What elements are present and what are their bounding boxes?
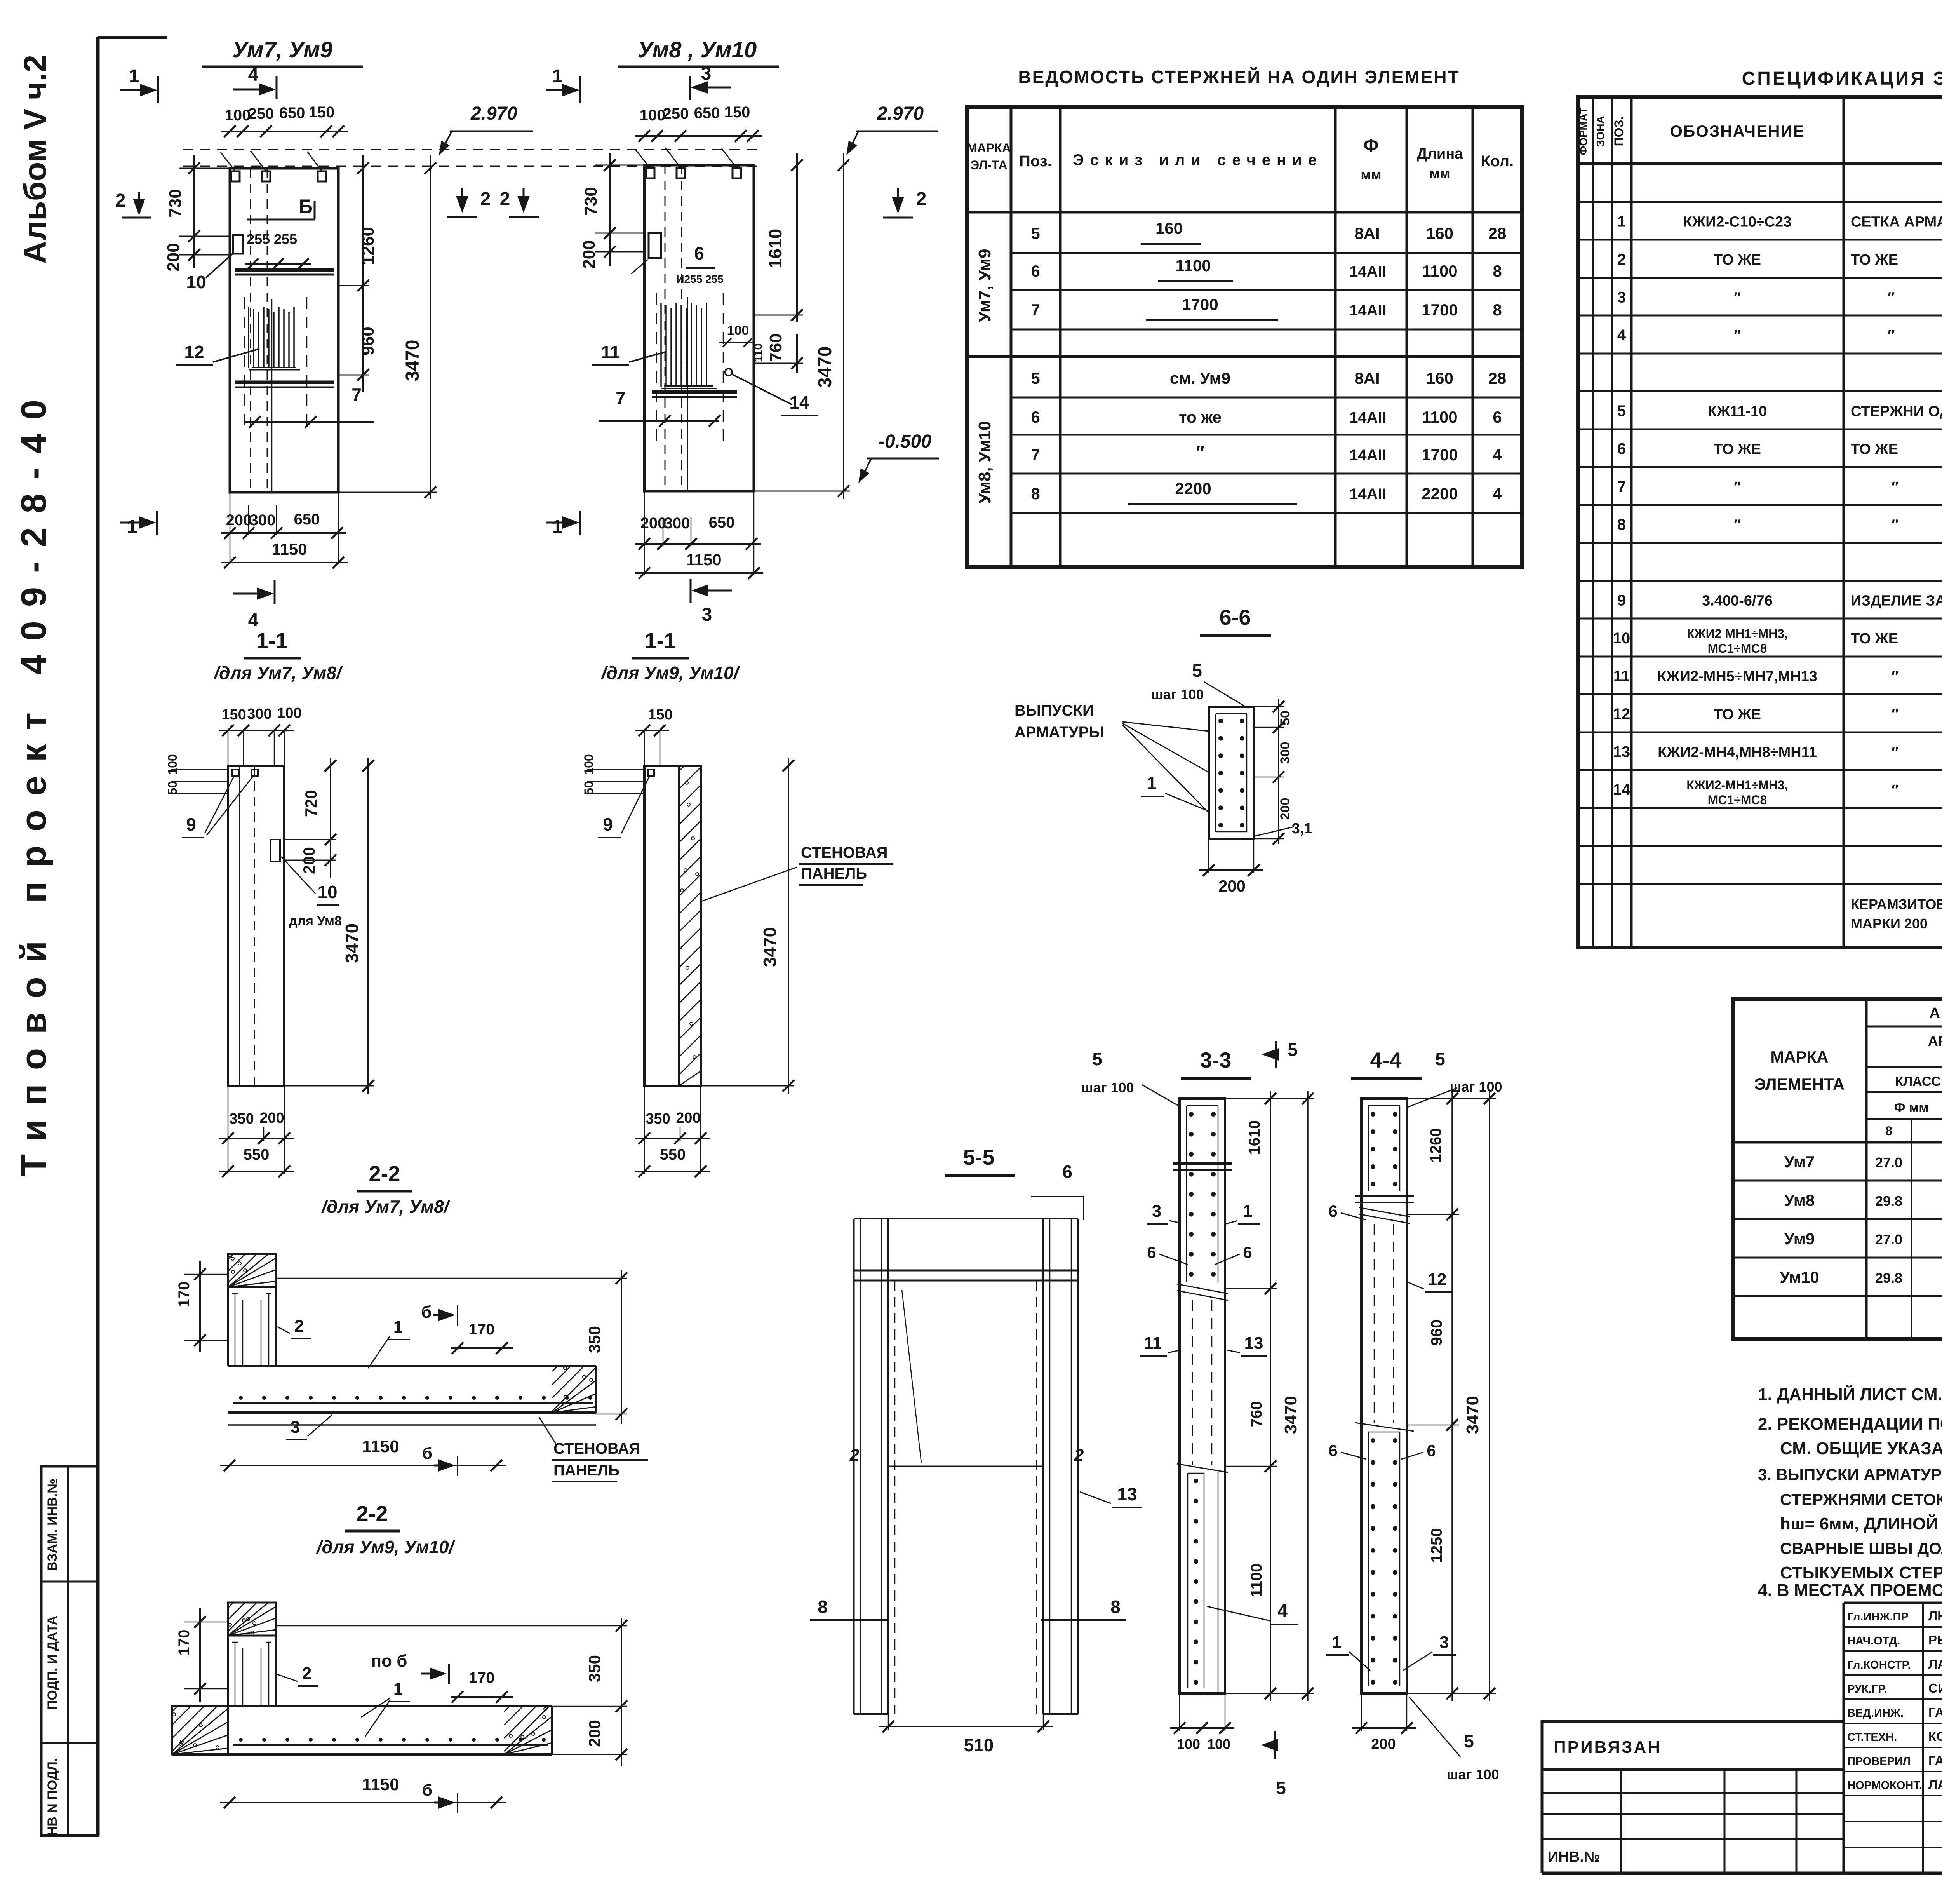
svg-text:3,1: 3,1 [1292, 820, 1312, 837]
svg-text:4: 4 [1493, 446, 1502, 464]
svg-text:550: 550 [660, 1146, 686, 1163]
svg-text:Гл.ИНЖ.ПР: Гл.ИНЖ.ПР [1847, 1611, 1909, 1623]
svg-text:ТО ЖЕ: ТО ЖЕ [1714, 252, 1761, 268]
svg-text:МС1÷МС8: МС1÷МС8 [1708, 793, 1767, 807]
svg-text:ВЕДОМОСТЬ СТЕРЖНЕЙ НА ОДИН: ВЕДОМОСТЬ СТЕРЖНЕЙ НА ОДИН ЭЛЕМЕНТ [1018, 67, 1460, 87]
top panel cap with hatch 2-2B [228, 1603, 276, 1636]
svg-text:250: 250 [248, 105, 274, 122]
svg-text:5: 5 [1288, 1040, 1298, 1060]
svg-text:/для Ум7, Ум8/: /для Ум7, Ум8/ [321, 1197, 450, 1217]
svg-text:3. ВЫПУСКИ АРМАТУРЫ ИЗ СТЕ: 3. ВЫПУСКИ АРМАТУРЫ ИЗ СТЕНОВЫХ ПАНЕЛЕЙ … [1758, 1465, 1942, 1484]
embedded part rect view B [631, 233, 661, 274]
break lines section 3-3 [1177, 1284, 1228, 1472]
position label 13 section 5-5 [1080, 1484, 1142, 1507]
svg-text:МАРКИ 200: МАРКИ 200 [1851, 916, 1928, 932]
dimension 170 section 2-2B [176, 1608, 228, 1702]
svg-text:5-5: 5-5 [963, 1145, 995, 1169]
svg-text:шаг 100: шаг 100 [1446, 1766, 1499, 1782]
table spetsifikatsiya row 6 [1617, 439, 1942, 458]
svg-text:350: 350 [229, 1111, 254, 1127]
table spetsifikatsiya row 3 [1617, 287, 1942, 307]
svg-text:110: 110 [752, 343, 765, 362]
position label 2 section 2-2A [277, 1317, 311, 1338]
svg-text:ЛАПКИН: ЛАПКИН [1928, 1777, 1942, 1792]
svg-text:14: 14 [1613, 781, 1631, 798]
svg-text:350: 350 [646, 1111, 670, 1127]
position label 1 section 6-6 [1141, 773, 1209, 811]
svg-text:160: 160 [1155, 219, 1183, 237]
position label 2 section 2-2B [277, 1664, 318, 1686]
svg-text:200: 200 [164, 243, 183, 271]
svg-text:Ум7, Ум9: Ум7, Ум9 [975, 249, 994, 322]
svg-text:ГАЛЬПЕРИНА: ГАЛЬПЕРИНА [1928, 1753, 1942, 1768]
svg-text:СТЕНОВАЯ: СТЕНОВАЯ [801, 844, 888, 861]
svg-text:255 255: 255 255 [247, 231, 297, 247]
table spetsifikatsiya row 2 [1617, 249, 1942, 268]
svg-text:4: 4 [1617, 327, 1626, 344]
svg-text:200: 200 [1278, 798, 1293, 820]
svg-text:мм: мм [1361, 167, 1381, 183]
svg-text:11: 11 [1613, 668, 1630, 685]
svg-text:КЖИ2-МН1÷МН3,: КЖИ2-МН1÷МН3, [1686, 778, 1788, 792]
bottom dimension 100 100 section 3-3 [1170, 1693, 1234, 1752]
svg-text:170: 170 [469, 1669, 495, 1686]
svg-text:СПЕЦИФИКАЦИЯ ЭЛЕМЕНТОВ МОНОЛ: СПЕЦИФИКАЦИЯ ЭЛЕМЕНТОВ МОНОЛИТНОЙ КОНСТР… [1742, 68, 1942, 89]
svg-text:6: 6 [694, 243, 704, 263]
level mark 2.970 view B [846, 103, 938, 155]
svg-text:то же: то же [1179, 408, 1222, 426]
svg-text:3470: 3470 [760, 927, 780, 967]
svg-text:28: 28 [1488, 369, 1507, 387]
mark 5 shag 100 bottom section 4-4 [1409, 1697, 1499, 1782]
svg-text:2-2: 2-2 [357, 1501, 388, 1526]
svg-text:Ум9: Ум9 [1784, 1230, 1815, 1248]
svg-text:4: 4 [248, 610, 259, 631]
svg-text:4-4: 4-4 [1370, 1048, 1402, 1072]
svg-text:1610: 1610 [765, 229, 785, 268]
mark 5 shag 100 section 6-6 [1151, 660, 1248, 708]
svg-text:2.970: 2.970 [470, 103, 517, 124]
svg-text:Ум8, Ум10: Ум8, Ум10 [975, 421, 994, 503]
sheet border left frame line [98, 37, 167, 1836]
svg-text:5: 5 [1617, 402, 1626, 420]
svg-text:550: 550 [244, 1146, 270, 1163]
section title 6-6 [1200, 605, 1271, 636]
slab right end hatch 2-2B [504, 1706, 552, 1754]
svg-text:1260: 1260 [358, 227, 378, 265]
weld splice bars section 3-3 [1173, 1164, 1232, 1170]
svg-text:300: 300 [247, 706, 271, 722]
table vyborka row Um9 [1784, 1230, 1942, 1248]
svg-text:350: 350 [585, 1326, 604, 1353]
svg-text:КЖ11-10: КЖ11-10 [1708, 403, 1767, 420]
svg-text:3470: 3470 [402, 340, 423, 381]
svg-text:8АI: 8АI [1354, 369, 1380, 387]
svg-text:-0.500: -0.500 [879, 431, 931, 452]
svg-text:7: 7 [1617, 478, 1626, 495]
table spetsifikatsiya grid [1578, 97, 1942, 948]
signature table grid [1844, 1603, 1942, 1873]
svg-text:6: 6 [1147, 1243, 1156, 1261]
signature table names [1847, 1609, 1942, 1792]
svg-text:300: 300 [250, 512, 276, 529]
svg-text:3: 3 [701, 63, 712, 84]
svg-text:200: 200 [676, 1110, 700, 1126]
svg-text:2200: 2200 [1175, 479, 1211, 498]
svg-text:ПРОВЕРИЛ: ПРОВЕРИЛ [1847, 1755, 1911, 1768]
svg-text:4: 4 [1493, 484, 1502, 503]
svg-text:ВЕД.ИНЖ.: ВЕД.ИНЖ. [1847, 1707, 1904, 1719]
slab rebar dots 2-2A [239, 1396, 592, 1400]
svg-text:КЛАСС АI: КЛАСС АI [1895, 1074, 1942, 1089]
svg-text:200: 200 [585, 1720, 604, 1747]
svg-text:50: 50 [165, 781, 179, 795]
svg-text:″: ″ [1892, 744, 1898, 761]
svg-text:МАРКА: МАРКА [967, 141, 1011, 155]
svg-text:14: 14 [789, 392, 809, 413]
table spetsifikatsiya row 9 [1617, 591, 1942, 610]
svg-text:″: ″ [1892, 517, 1898, 533]
svg-text:7: 7 [1031, 446, 1040, 464]
svg-text:2: 2 [916, 189, 927, 209]
table vedomost row 7 group2 [1031, 442, 1502, 464]
svg-text:2: 2 [849, 1446, 860, 1465]
wall verticals 2-2B [228, 1636, 276, 1706]
column top segment section 4-4 [1368, 1106, 1400, 1191]
svg-text:НОРМОКОНТ.: НОРМОКОНТ. [1847, 1779, 1922, 1792]
svg-text:ПРИВЯЗАН: ПРИВЯЗАН [1554, 1738, 1662, 1757]
svg-text:″: ″ [1734, 290, 1741, 306]
svg-text:3470: 3470 [1463, 1396, 1482, 1434]
left dimension chain 730 200 view A [164, 155, 230, 272]
svg-text:720: 720 [302, 790, 320, 817]
position label 7 view B [599, 388, 720, 427]
table spetsifikatsiya headers [1577, 107, 1942, 161]
anchor plates section 1-1A [232, 770, 258, 776]
rebar cluster view B [656, 293, 723, 491]
svg-text:СМ. ОБЩИЕ УКАЗАНИЯ п.6: СМ. ОБЩИЕ УКАЗАНИЯ п.6 НА ЛИСТЕ КЖ 11-1 [1780, 1439, 1942, 1458]
right dimension chain 1260 960 1250 section 4-4 [1407, 1091, 1459, 1701]
svg-text:650: 650 [709, 514, 735, 531]
position label 4 section 3-3 [1207, 1601, 1298, 1625]
elevation outline view B [644, 165, 754, 491]
bottom dimensions 350 200 550 section 1-1B [635, 1086, 710, 1177]
section cut mark 1 bottom-left of view B [546, 511, 580, 537]
svg-text:АРМАТУРЫ: АРМАТУРЫ [1015, 724, 1104, 741]
svg-text:ЛАПКИН: ЛАПКИН [1928, 1657, 1942, 1671]
svg-text:3: 3 [291, 1418, 300, 1437]
svg-text:Ф: Ф [1363, 135, 1378, 155]
table vyborka row Um7 [1784, 1153, 1942, 1171]
svg-text:1: 1 [393, 1679, 403, 1698]
rebar dots section 6-6 [1218, 719, 1244, 827]
welded mesh bar lower view A [235, 382, 334, 387]
table vedomost row 8 group2 [1031, 479, 1502, 504]
marks 8 section 5-5 [810, 1597, 1126, 1620]
overall dimension 3470 view B [754, 153, 850, 499]
svg-text:13: 13 [1244, 1334, 1263, 1353]
svg-text:Альбом V ч.2: Альбом V ч.2 [17, 55, 53, 264]
position label 3 section 2-2A [286, 1415, 332, 1439]
svg-text:150: 150 [309, 104, 335, 121]
svg-text:100: 100 [225, 107, 251, 124]
table vyborka row Um8 [1784, 1191, 1942, 1209]
dimension 720 200 section 1-1A [284, 758, 336, 878]
table spetsifikatsiya row 12 [1613, 704, 1942, 723]
weld splice bars section 4-4 [1355, 1196, 1414, 1202]
svg-text:760: 760 [766, 333, 785, 362]
svg-text:6: 6 [1328, 1202, 1337, 1220]
svg-text:730: 730 [581, 187, 600, 215]
mark 6 top right section 5-5 [1031, 1162, 1084, 1220]
bottom dimension chain 200 300 650 view B [635, 491, 761, 575]
section title 4-4 [1351, 1048, 1422, 1078]
dimension 350 right section 2-2A [276, 1270, 627, 1424]
bottom dimension 1150 view B [635, 550, 763, 579]
svg-text:для Ум8: для Ум8 [289, 914, 342, 928]
wall verticals 2-2A [228, 1287, 276, 1366]
column section outline 6-6 [1209, 707, 1254, 839]
svg-text:6: 6 [1493, 408, 1502, 426]
svg-text:КЖИ2-МН5÷МН7,МН13: КЖИ2-МН5÷МН7,МН13 [1657, 669, 1817, 685]
position label 9 section 1-1B [598, 776, 649, 838]
bottom dimension 510 section 5-5 [879, 1714, 1053, 1755]
svg-text:″: ″ [1196, 442, 1204, 462]
svg-text:2.970: 2.970 [877, 103, 924, 124]
table vedomost sterzhney title [1018, 67, 1460, 87]
section cut mark 2 right of view A [447, 188, 491, 217]
svg-text:160: 160 [1426, 369, 1453, 387]
sheet bottom frame line [1542, 1872, 1942, 1875]
svg-text:СИНЕЛЬНИКОВА: СИНЕЛЬНИКОВА [1928, 1681, 1942, 1695]
overall dimension 3470 section 3-3 [1225, 1091, 1314, 1701]
svg-text:2: 2 [115, 190, 126, 211]
svg-text:100: 100 [1207, 1736, 1230, 1752]
section title 1-1 for Um9 Um10 [601, 628, 740, 683]
mark 5 shag 100 left section 3-3 [1081, 1049, 1180, 1106]
svg-text:11: 11 [601, 342, 620, 362]
table spetsifikatsiya row 10 [1613, 627, 1942, 655]
svg-text:100: 100 [582, 754, 596, 775]
dimension 170 mid section 2-2A [451, 1321, 513, 1354]
svg-text:3470: 3470 [815, 347, 835, 388]
svg-text:8: 8 [1493, 262, 1502, 280]
section cut mark 1 top-left of view A [120, 66, 158, 103]
svg-text:29.8: 29.8 [1875, 1193, 1902, 1209]
svg-text:250: 250 [663, 105, 689, 122]
dimension 350 200 right section 2-2B [276, 1618, 627, 1766]
overall dimension 3470 section 1-1B [701, 758, 794, 1094]
labels 2 section 5-5 [849, 1446, 1084, 1465]
wall section outline 1-1A [228, 766, 284, 1086]
svg-text:4: 4 [248, 64, 259, 85]
svg-text:6-6: 6-6 [1220, 605, 1251, 629]
svg-text:4: 4 [1277, 1601, 1288, 1621]
bottom dimension chain 200 300 650 view A [221, 492, 346, 564]
mark 5 bottom section 3-3 [1261, 1731, 1286, 1798]
svg-text:Гл.КОНСТР.: Гл.КОНСТР. [1847, 1659, 1911, 1671]
svg-text:1100: 1100 [1248, 1564, 1265, 1597]
section cut mark 1 bottom-left of view A [120, 511, 157, 537]
section title 3-3 [1181, 1048, 1251, 1078]
table spetsifikatsiya row 8 [1617, 515, 1942, 534]
svg-text:170: 170 [176, 1282, 193, 1308]
svg-text:ЛЮБАВИН: ЛЮБАВИН [1928, 1609, 1942, 1623]
label stenovaya panel section 2-2A [539, 1417, 648, 1482]
table spetsifikatsiya row 11 [1613, 666, 1942, 685]
svg-text:12: 12 [1428, 1270, 1447, 1289]
svg-text:10: 10 [317, 882, 337, 902]
svg-text:160: 160 [1426, 224, 1453, 242]
table vedomost row 6 group2 [1031, 408, 1502, 426]
slab section 2-2A [228, 1366, 596, 1425]
svg-text:100: 100 [277, 705, 301, 721]
svg-text:8: 8 [1617, 516, 1626, 533]
svg-text:8: 8 [1031, 484, 1040, 503]
svg-text:3: 3 [1439, 1633, 1449, 1652]
svg-text:960: 960 [1428, 1320, 1445, 1346]
column top segment section 3-3 [1187, 1106, 1218, 1282]
rebar cluster view A [245, 297, 307, 492]
position label 11 view B [592, 342, 666, 365]
svg-text:СТЕНОВАЯ: СТЕНОВАЯ [553, 1440, 640, 1457]
svg-text:Ум8: Ум8 [1784, 1191, 1815, 1209]
table spetsifikatsiya row 4 [1617, 325, 1942, 344]
svg-text:170: 170 [469, 1321, 495, 1338]
left stamp sub-table [1542, 1770, 1844, 1873]
svg-text:1700: 1700 [1182, 295, 1218, 314]
svg-text:1: 1 [129, 66, 139, 87]
svg-text:ТО ЖЕ: ТО ЖЕ [1851, 441, 1898, 458]
dimension 760 view B [754, 333, 803, 373]
label vypuski armatury section 6-6 [1015, 702, 1209, 813]
overall dimension 3470 view A [338, 155, 437, 499]
svg-text:50: 50 [582, 781, 596, 795]
svg-text:100: 100 [165, 754, 179, 775]
svg-text:2: 2 [294, 1317, 304, 1336]
svg-text:РЫБКИНА: РЫБКИНА [1928, 1633, 1942, 1647]
svg-text:1: 1 [393, 1317, 403, 1336]
svg-text:1: 1 [1147, 773, 1157, 793]
welded mesh bar upper view A [235, 270, 334, 275]
svg-text:2200: 2200 [1422, 484, 1458, 503]
svg-text:8: 8 [1110, 1597, 1121, 1617]
svg-text:3470: 3470 [342, 923, 362, 963]
svg-text:3: 3 [702, 604, 712, 625]
svg-text:Длина: Длина [1417, 146, 1463, 162]
svg-text:650: 650 [694, 105, 720, 122]
wall section outline 1-1B with panel hatch [644, 766, 701, 1086]
svg-text:1: 1 [552, 66, 563, 87]
position labels 6 6 lower section 4-4 [1328, 1441, 1436, 1460]
section cut mark 2 left of view A [115, 190, 151, 218]
view title Um8, Um10 [618, 37, 779, 67]
section title 2-2 for Um9 Um10 [316, 1501, 456, 1557]
svg-text:5: 5 [1464, 1731, 1474, 1751]
svg-text:2: 2 [302, 1664, 311, 1683]
svg-text:ИНВ.№: ИНВ.№ [1548, 1849, 1600, 1865]
svg-text:10: 10 [1613, 630, 1631, 647]
svg-text:hш= 6мм, ДЛИНОЙ ℓш = 100 мм: hш= 6мм, ДЛИНОЙ ℓш = 100 мм. [1780, 1514, 1942, 1533]
svg-text:Б: Б [299, 195, 313, 217]
column lower segment section 4-4 [1368, 1432, 1400, 1686]
svg-text:″: ″ [1892, 706, 1898, 723]
svg-text:150: 150 [221, 707, 246, 723]
svg-text:НАЧ.ОТД.: НАЧ.ОТД. [1847, 1635, 1900, 1647]
svg-text:6: 6 [1617, 441, 1626, 458]
svg-text:200: 200 [1371, 1736, 1396, 1752]
table vyborka grid outer [1733, 999, 1942, 1339]
svg-text:5: 5 [1435, 1049, 1445, 1069]
svg-text:1610: 1610 [1246, 1120, 1263, 1155]
svg-text:300: 300 [664, 515, 690, 532]
svg-text:Ф мм: Ф мм [1894, 1100, 1929, 1115]
svg-text:ЭЛЕМЕНТА: ЭЛЕМЕНТА [1754, 1075, 1845, 1093]
section title 1-1 for Um7 Um8 [213, 628, 343, 683]
table vedomost grid [967, 107, 1522, 567]
svg-text:″: ″ [1892, 782, 1898, 798]
svg-text:1: 1 [1617, 213, 1626, 230]
svg-text:шаг 100: шаг 100 [1151, 686, 1204, 702]
svg-text:1100: 1100 [1175, 256, 1211, 275]
svg-text:5: 5 [1031, 369, 1040, 387]
svg-text:СТЕРЖНЯМИ СЕТОК ПОЗ. 1÷3 О: СТЕРЖНЯМИ СЕТОК ПОЗ. 1÷3 ОДНОСТОРОННИМ С… [1780, 1490, 1942, 1509]
slab rebar dots 2-2B [239, 1738, 546, 1742]
margin text Album V ch.2 [17, 55, 53, 264]
embedded part pos 10 section 1-1A [271, 840, 342, 928]
table vedomost headers [967, 135, 1514, 183]
svg-text:ФОРМАТ: ФОРМАТ [1577, 107, 1589, 155]
top dimension 150 section 1-1B [635, 707, 673, 766]
svg-text:ПОДП. И ДАТА: ПОДП. И ДАТА [45, 1616, 60, 1710]
svg-text:СВАРНЫЕ ШВЫ ДОЛЖНЫ ОБЕСПЕЧИ: СВАРНЫЕ ШВЫ ДОЛЖНЫ ОБЕСПЕЧИВАТЬ РАВНОПРО… [1780, 1539, 1942, 1557]
svg-text:3-3: 3-3 [1200, 1048, 1232, 1072]
table vedomost row 5 group1 [1031, 219, 1506, 244]
svg-text:12: 12 [184, 342, 204, 362]
table vedomost group labels [975, 249, 994, 504]
svg-text:6: 6 [1427, 1441, 1436, 1460]
svg-text:1: 1 [1332, 1633, 1342, 1652]
svg-text:НВ N ПОДЛ.: НВ N ПОДЛ. [45, 1758, 60, 1836]
svg-text:ТО ЖЕ: ТО ЖЕ [1714, 441, 1761, 458]
section cut mark 2 mid-left of view B [883, 188, 926, 218]
table spetsifikatsiya row 7 [1617, 477, 1942, 496]
svg-text:100: 100 [727, 323, 749, 338]
svg-text:200: 200 [579, 240, 599, 268]
section title 5-5 [945, 1145, 1015, 1176]
elevation outline view A [230, 168, 338, 492]
label stenovaya panel section 1-1B [701, 844, 893, 901]
view title Um7, Um9 [202, 37, 363, 67]
svg-text:б: б [422, 1444, 432, 1462]
svg-text:1100: 1100 [1422, 262, 1457, 280]
svg-text:Типовой проект 409-28-40: Типовой проект 409-28-40 [14, 386, 54, 1176]
svg-text:9: 9 [603, 814, 613, 834]
privyazan box [1542, 1721, 1844, 1770]
svg-text:Эскиз или сечение: Эскиз или сечение [1073, 152, 1323, 169]
column outline section 4-4 [1361, 1099, 1407, 1693]
svg-text:Кол.: Кол. [1481, 153, 1514, 170]
overall dimension 3470 section 1-1A [284, 758, 374, 1094]
column middle dashed section 4-4 [1374, 1224, 1394, 1423]
svg-text:ТО ЖЕ: ТО ЖЕ [1851, 252, 1898, 268]
svg-text:ОБОЗНАЧЕНИЕ: ОБОЗНАЧЕНИЕ [1670, 122, 1805, 140]
svg-text:28: 28 [1488, 224, 1507, 242]
svg-text:/для Ум7, Ум8/: /для Ум7, Ум8/ [213, 663, 343, 683]
svg-text:″: ″ [1734, 517, 1741, 533]
svg-text:3470: 3470 [1281, 1396, 1300, 1434]
position label 14 view B [725, 369, 818, 416]
